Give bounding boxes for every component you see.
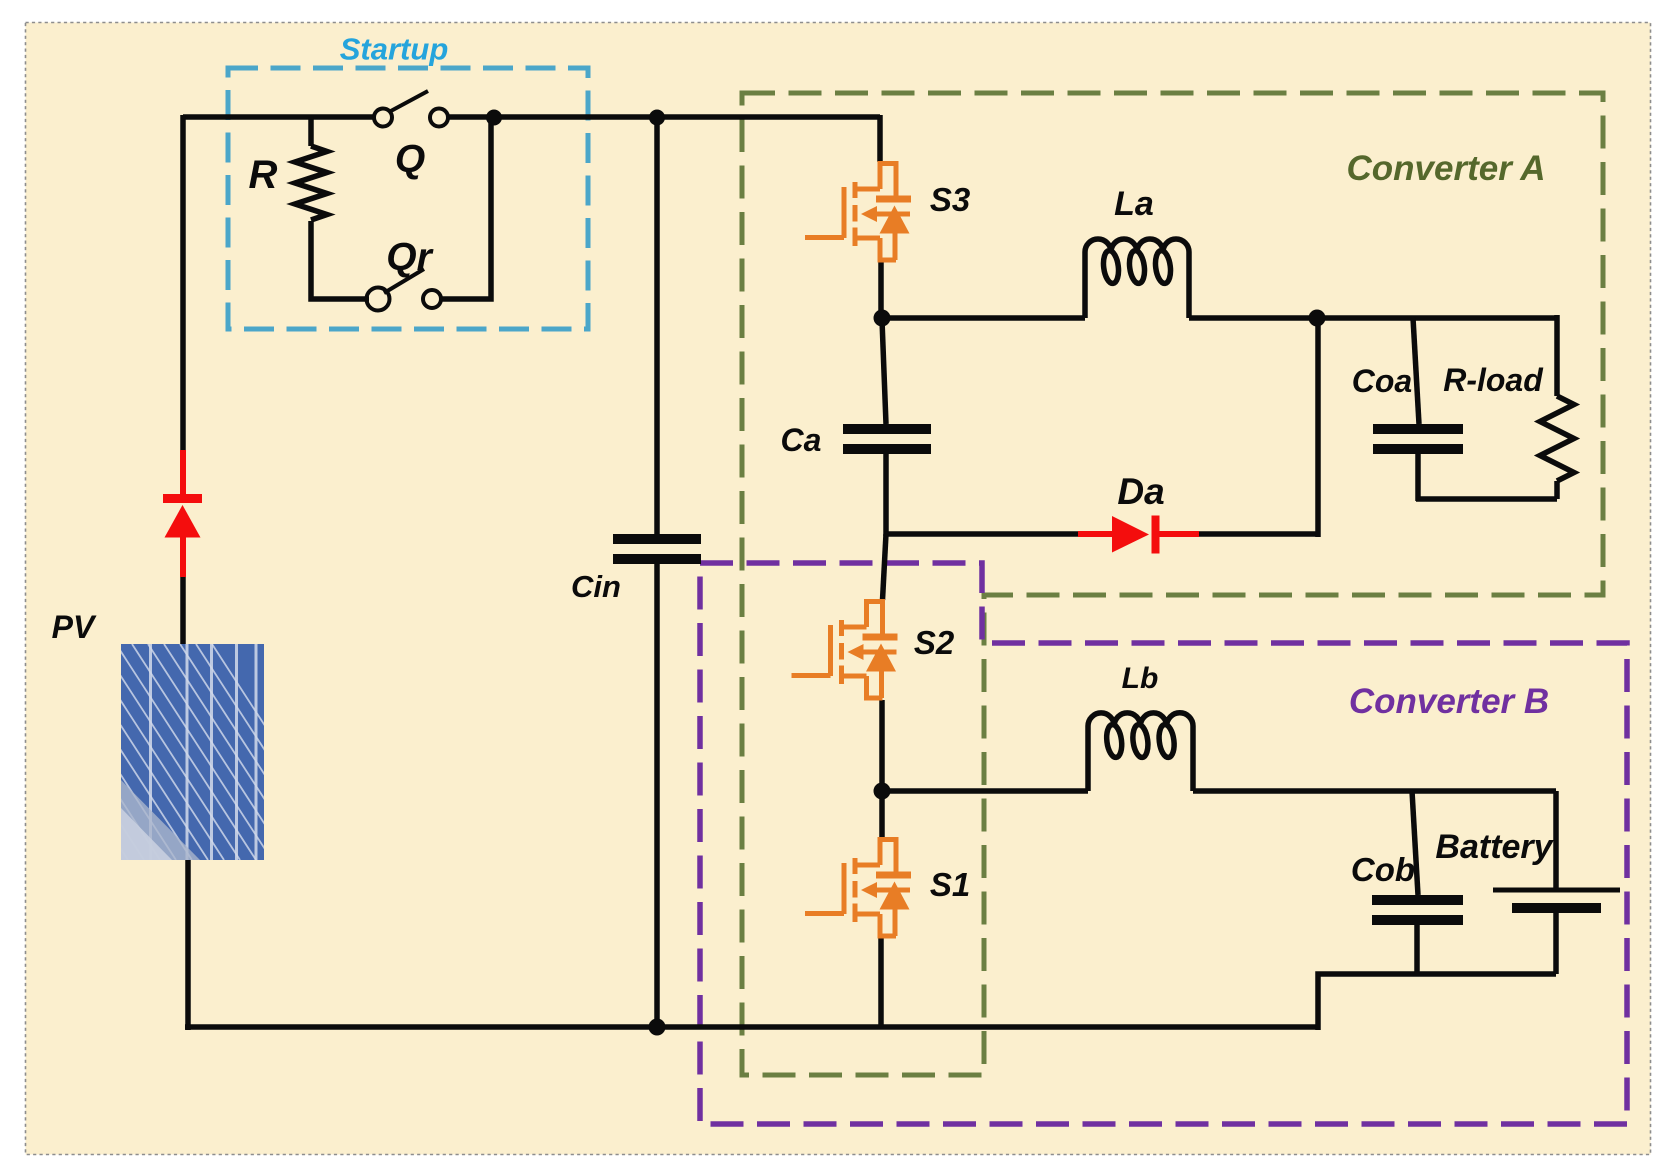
transistor S3 bbox=[805, 161, 911, 263]
wire bottom rail bbox=[185, 1024, 1318, 1030]
svg-text:Ca: Ca bbox=[781, 422, 822, 458]
svg-text:Converter A: Converter A bbox=[1346, 149, 1545, 188]
svg-text:Q: Q bbox=[395, 138, 425, 181]
wire Cob below plates bbox=[1414, 925, 1420, 974]
PV panel image bbox=[0, 644, 352, 860]
svg-text:S2: S2 bbox=[914, 624, 955, 661]
inductor Lb coil bbox=[1088, 713, 1193, 791]
wire S3 drain from top rail bbox=[877, 115, 883, 162]
svg-text:S3: S3 bbox=[930, 181, 970, 218]
diode D (red, PV blocking) bbox=[163, 450, 202, 577]
switch Qr lever bbox=[384, 269, 424, 293]
wire Cin bottom bbox=[654, 564, 660, 1027]
capacitor Cob bbox=[1372, 895, 1463, 925]
converter B box (purple dashed, notched) bbox=[700, 563, 1627, 1124]
wire Coa slant from top rail bbox=[1413, 318, 1419, 424]
wire top-left horizontal bbox=[183, 114, 374, 120]
wire Ca tee down to S2 bbox=[883, 534, 887, 600]
wire Da left segment bbox=[884, 531, 1080, 537]
wire Qr right to vertical riser bbox=[441, 120, 491, 299]
svg-text:Battery: Battery bbox=[1435, 828, 1554, 866]
wire Coa/R-load bottom rail bbox=[1416, 496, 1557, 502]
resistor R bottom lead bbox=[311, 221, 369, 299]
wire Ca slant from node A bbox=[882, 320, 886, 424]
wire R-load right drop bbox=[1554, 315, 1560, 396]
svg-text:Da: Da bbox=[1117, 471, 1164, 512]
inductor La coil bbox=[1085, 239, 1189, 318]
wire Da up to node B bbox=[1315, 318, 1321, 537]
converter A box (green dashed, notched) bbox=[742, 93, 1603, 1075]
wire Lb to battery corner bbox=[1193, 788, 1556, 794]
wire Coa below plates bbox=[1415, 454, 1421, 501]
wire top mid horizontal (switch Q right to S3 corner) bbox=[448, 114, 880, 120]
transistor S2 bbox=[792, 599, 898, 701]
wire Cin top bbox=[654, 117, 660, 535]
svg-text:Startup: Startup bbox=[340, 32, 449, 67]
svg-text:Converter B: Converter B bbox=[1349, 682, 1549, 721]
wire node C to S1 bbox=[879, 791, 885, 838]
svg-text:Qr: Qr bbox=[386, 236, 433, 279]
svg-text:Coa: Coa bbox=[1352, 363, 1412, 399]
resistor R-load zigzag bbox=[1540, 396, 1574, 481]
diode Da (red) bbox=[1078, 516, 1199, 554]
svg-text:R-load: R-load bbox=[1443, 362, 1544, 398]
wire Cob slant from rail bbox=[1412, 791, 1418, 895]
switch Qr contacts bbox=[367, 288, 442, 311]
svg-text:S1: S1 bbox=[930, 866, 970, 903]
wire La to R-load corner bbox=[1189, 315, 1557, 321]
wire diode to PV bbox=[180, 574, 186, 646]
switch Q lever bbox=[389, 91, 428, 112]
wire Da right segment bbox=[1198, 531, 1318, 537]
wire battery top lead bbox=[1553, 791, 1559, 888]
wire PV bottom to bottom rail bbox=[185, 858, 191, 1030]
svg-text:Cin: Cin bbox=[571, 569, 621, 604]
resistor R top lead bbox=[308, 117, 314, 146]
capacitor Ca bbox=[843, 424, 931, 454]
switch Q contacts bbox=[374, 109, 448, 127]
svg-text:R: R bbox=[249, 153, 278, 197]
svg-text:La: La bbox=[1114, 185, 1154, 223]
wire Ca bottom to Da tee bbox=[883, 454, 889, 536]
wire R-load bottom bbox=[1554, 481, 1560, 499]
svg-text:Cob: Cob bbox=[1351, 851, 1415, 888]
capacitor Cin bbox=[613, 534, 701, 564]
wire node A to La bbox=[882, 315, 1085, 321]
wire S1 source to bottom rail bbox=[878, 938, 884, 1027]
wire bottom step to battery rail bbox=[1318, 974, 1556, 1030]
wire battery bottom lead bbox=[1553, 913, 1559, 974]
capacitor Coa bbox=[1373, 424, 1463, 454]
svg-text:PV: PV bbox=[52, 609, 97, 645]
wire left vertical (to diode) bbox=[180, 115, 186, 454]
wire S3 source to node A bbox=[878, 262, 884, 321]
wire node C to Lb bbox=[882, 788, 1088, 794]
startup box (cyan dashed) bbox=[228, 68, 588, 329]
wire S2 source to node C bbox=[879, 700, 885, 794]
svg-text:Lb: Lb bbox=[1122, 662, 1159, 695]
transistor S1 bbox=[805, 837, 911, 939]
battery plates bbox=[1493, 888, 1620, 914]
resistor R zigzag bbox=[295, 146, 327, 220]
